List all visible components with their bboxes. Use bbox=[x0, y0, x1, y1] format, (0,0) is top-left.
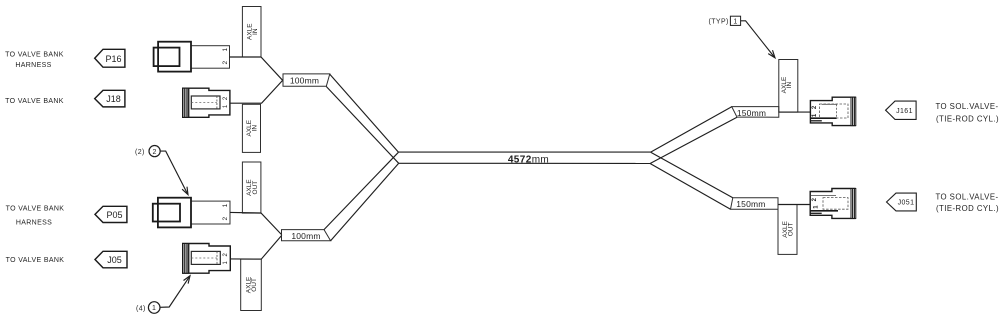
svg-text:TO SOL.VALVE-: TO SOL.VALVE- bbox=[935, 102, 998, 111]
wire bundle top-left branch bbox=[326, 74, 398, 163]
wire P16 to splice bbox=[230, 57, 283, 80]
connector J051 bbox=[810, 189, 856, 219]
label box AXLE IN (P16 branch) bbox=[242, 7, 261, 58]
svg-text:(TYP): (TYP) bbox=[709, 19, 729, 26]
wire to J161 bbox=[779, 111, 811, 113]
svg-text:150mm: 150mm bbox=[737, 108, 766, 118]
svg-text:150mm: 150mm bbox=[736, 199, 765, 209]
callout (TYP) 1 with leader arrow bbox=[709, 16, 776, 58]
wire bundle top-right branch bbox=[650, 107, 737, 164]
wire J18 to splice bbox=[230, 81, 283, 104]
svg-text:(4): (4) bbox=[136, 305, 146, 312]
label 100mm (top-left segment) bbox=[283, 74, 330, 86]
svg-text:IN: IN bbox=[252, 28, 259, 35]
text: TO VALVE BANK HARNESS (P16) bbox=[5, 52, 64, 70]
svg-text:2: 2 bbox=[222, 217, 229, 221]
svg-text:4572mm: 4572mm bbox=[508, 154, 549, 165]
svg-text:1: 1 bbox=[222, 48, 229, 52]
svg-text:HARNESS: HARNESS bbox=[16, 220, 52, 227]
svg-text:1: 1 bbox=[222, 203, 229, 207]
flag J18 bbox=[95, 90, 125, 107]
svg-text:P16: P16 bbox=[105, 54, 121, 64]
svg-text:(TIE-ROD CYL.): (TIE-ROD CYL.) bbox=[936, 115, 999, 124]
label 100mm (bottom-left segment) bbox=[282, 230, 331, 241]
connector P16 bbox=[154, 42, 230, 72]
connector J161 bbox=[810, 97, 855, 125]
label box AXLE OUT (J051 branch) bbox=[778, 205, 797, 255]
svg-text:HARNESS: HARNESS bbox=[15, 62, 51, 69]
wire P05 to splice bbox=[230, 212, 282, 235]
svg-text:J051: J051 bbox=[898, 200, 915, 207]
flag P16 bbox=[95, 49, 125, 67]
svg-text:(2): (2) bbox=[135, 149, 145, 156]
svg-text:TO VALVE BANK: TO VALVE BANK bbox=[5, 52, 64, 59]
svg-text:TO SOL.VALVE-: TO SOL.VALVE- bbox=[935, 192, 998, 201]
svg-text:(TIE-ROD CYL.): (TIE-ROD CYL.) bbox=[936, 204, 999, 213]
label box AXLE OUT (J05 branch) bbox=[241, 259, 262, 310]
svg-text:2: 2 bbox=[152, 149, 156, 156]
flag J051 bbox=[887, 193, 917, 211]
wire bundle bottom-left branch bbox=[324, 152, 399, 241]
wire main bundle 4572mm bbox=[398, 152, 650, 165]
svg-text:OUT: OUT bbox=[788, 223, 795, 237]
wire to J051 bbox=[778, 204, 810, 206]
callout circled 2 (qty 2) with leader arrow bbox=[135, 146, 188, 195]
svg-text:IN: IN bbox=[252, 125, 259, 132]
callout circled 1 (qty 4) with leader arrow bbox=[136, 276, 190, 314]
connector J18 bbox=[183, 88, 230, 117]
connector P05 bbox=[153, 198, 230, 228]
flag P05 bbox=[95, 206, 127, 222]
wire bundle bottom-right branch bbox=[650, 152, 733, 209]
svg-text:P05: P05 bbox=[106, 210, 122, 220]
label 150mm (bottom-right segment) bbox=[731, 198, 779, 210]
svg-text:1: 1 bbox=[152, 305, 156, 312]
svg-text:J05: J05 bbox=[107, 255, 122, 265]
label box AXLE IN (J161 branch) bbox=[779, 60, 798, 113]
svg-text:100mm: 100mm bbox=[291, 231, 320, 241]
svg-text:TO VALVE BANK: TO VALVE BANK bbox=[5, 98, 64, 105]
svg-text:TO VALVE BANK: TO VALVE BANK bbox=[6, 257, 65, 264]
svg-text:1: 1 bbox=[733, 19, 737, 26]
svg-text:OUT: OUT bbox=[251, 278, 258, 292]
svg-text:100mm: 100mm bbox=[290, 75, 319, 85]
svg-text:2: 2 bbox=[222, 61, 229, 65]
connector J05 bbox=[183, 244, 231, 274]
svg-text:TO VALVE BANK: TO VALVE BANK bbox=[6, 206, 65, 213]
svg-text:J161: J161 bbox=[896, 108, 913, 115]
flag J161 bbox=[886, 101, 917, 119]
text: TO VALVE BANK HARNESS (P05) bbox=[6, 206, 65, 227]
wire J05 to splice bbox=[230, 235, 281, 259]
label box AXLE OUT (P05 branch) bbox=[242, 162, 261, 213]
text: TO SOL.VALVE- (TIE-ROD CYL.) lower bbox=[935, 192, 999, 213]
label box AXLE IN (J18 branch) bbox=[242, 104, 260, 152]
flag J05 bbox=[95, 251, 127, 267]
svg-text:OUT: OUT bbox=[252, 181, 259, 195]
label 150mm (top-right segment) bbox=[732, 107, 779, 118]
svg-text:J18: J18 bbox=[106, 94, 121, 104]
svg-text:IN: IN bbox=[786, 81, 793, 88]
text: TO SOL.VALVE- (TIE-ROD CYL.) upper bbox=[935, 102, 999, 124]
